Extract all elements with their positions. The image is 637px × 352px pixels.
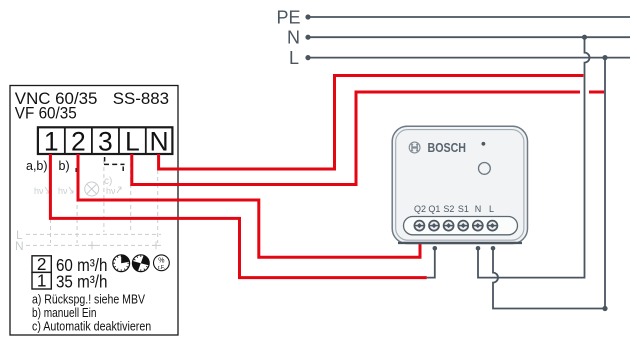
fan terminal strip separators: [65, 127, 146, 154]
fan internal hv sensor symbol 1 (faint): [34, 186, 49, 196]
net N terminal dot: [305, 35, 310, 40]
timer icon 1: [113, 255, 130, 272]
wire Q1 pigtail (gray corner): [427, 248, 435, 277]
svg-text:L: L: [489, 204, 494, 214]
svg-text:S2: S2: [443, 204, 454, 214]
relay module inner face line: [396, 130, 524, 241]
screw terminal Q2: [414, 221, 424, 231]
screw terminal Q1: [429, 221, 439, 231]
svg-text:35 m³/h: 35 m³/h: [56, 272, 107, 292]
svg-text:a,b): a,b): [26, 159, 48, 173]
relay module body: [392, 126, 527, 243]
junction dot at L wire corner: [602, 306, 607, 311]
junction dot on mains N: [582, 35, 587, 40]
dashed link at terminal 3: [105, 157, 124, 171]
svg-text:BOSCH: BOSCH: [428, 140, 467, 155]
wire fan N to mains N vertical (red): [159, 76, 584, 170]
wire fan L to mains L vertical segment 1 (red): [132, 92, 580, 185]
net PE wire: [308, 16, 630, 18]
svg-text:%: %: [158, 257, 164, 264]
Bosch logo armature symbol: [409, 142, 420, 153]
svg-text:b) manuell Ein: b) manuell Ein: [32, 306, 97, 320]
svg-text:c) Automatik deaktivieren: c) Automatik deaktivieren: [32, 319, 151, 333]
svg-text:N: N: [287, 28, 300, 48]
speed 1 box: [32, 272, 51, 289]
svg-text:1: 1: [37, 271, 47, 291]
svg-text:1: 1: [44, 126, 59, 156]
svg-text:PE: PE: [276, 7, 300, 27]
terminal dot module N pigtail: [476, 246, 481, 251]
svg-text:SS-883: SS-883: [113, 89, 169, 108]
net L terminal dot: [305, 55, 310, 60]
wire fan 2 to relay Q2 (red): [78, 154, 420, 257]
svg-text:hν: hν: [106, 186, 116, 196]
fan internal junction marks (faint): [88, 241, 160, 249]
screw terminal L: [487, 221, 497, 231]
wire module N to mains N (with hop over L line): [478, 37, 590, 277]
svg-text:Q1: Q1: [428, 204, 440, 214]
svg-text:S1: S1: [458, 204, 469, 214]
net PE terminal dot: [305, 14, 310, 19]
relay pushbutton: [479, 163, 491, 175]
terminal dot Q1 pigtail: [433, 246, 438, 251]
relay terminal block: [404, 217, 518, 235]
terminal dot module L pigtail: [491, 246, 496, 251]
svg-text:L: L: [289, 48, 299, 68]
screw terminal S1: [458, 221, 468, 231]
svg-text:N: N: [475, 204, 482, 214]
timer icon 2: [132, 255, 149, 272]
relay module bottom shadow edge: [398, 242, 522, 244]
svg-text:hν: hν: [58, 186, 68, 196]
svg-text:a) Rückspg.! siehe MBV: a) Rückspg.! siehe MBV: [32, 292, 146, 306]
svg-text:c): c): [104, 176, 112, 187]
wire module L to mains L (with hop over N pigtail run): [493, 58, 605, 309]
fan internal lamp symbol (faint): [85, 182, 99, 196]
svg-text:r.F.: r.F.: [158, 265, 166, 271]
fan internal dashed feed lines (faint): [51, 156, 158, 243]
screw terminal N: [473, 221, 483, 231]
screw terminal S2: [444, 221, 454, 231]
svg-text:N: N: [150, 126, 169, 156]
fan internal hv sensor symbol 3 (faint): [106, 186, 121, 196]
wire fan 1 to relay Q1 (red): [50, 154, 426, 278]
junction dot on mains L: [602, 55, 607, 60]
fan terminal strip outline: [38, 127, 173, 154]
svg-text:N: N: [15, 239, 24, 253]
svg-text:hν: hν: [34, 186, 44, 196]
net N wire: [308, 36, 630, 38]
speed 2 box: [32, 256, 51, 273]
svg-text:3: 3: [98, 126, 113, 156]
svg-text:VF 60/35: VF 60/35: [15, 103, 77, 122]
net L wire: [308, 57, 630, 59]
wire fan L to mains L vertical segment 2 after crossing (red): [589, 91, 604, 94]
tick below note b): [75, 168, 77, 172]
svg-text:L: L: [125, 126, 140, 156]
humidity icon % r.F.: [154, 255, 170, 271]
fan unit VNC 60/35 outline box: [10, 86, 178, 336]
fan internal hv sensor symbol 2 (faint): [58, 186, 73, 196]
relay status LED dot: [482, 142, 486, 146]
svg-text:2: 2: [71, 126, 86, 156]
svg-text:b): b): [59, 159, 70, 173]
svg-text:Q2: Q2: [414, 204, 426, 214]
